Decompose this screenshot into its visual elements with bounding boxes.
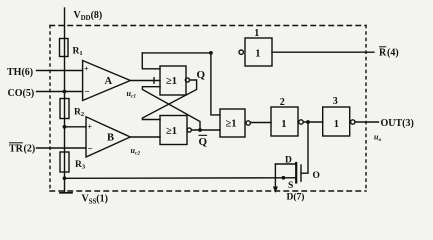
svg-text:TH(6): TH(6): [7, 67, 33, 78]
wire TR input: [37, 147, 87, 149]
svg-text:3: 3: [333, 96, 338, 107]
wire R4 reset pin: [272, 51, 374, 53]
svg-text:(4): (4): [387, 47, 399, 58]
node R2-R3 junction: [63, 125, 67, 129]
svg-text:−: −: [85, 87, 90, 97]
gate G1 latch top NOR: [160, 66, 186, 95]
svg-text:Q: Q: [197, 69, 206, 81]
wire Qbar output: [191, 129, 220, 131]
svg-text:+: +: [84, 65, 89, 74]
wire reset feedback to G3 input: [211, 53, 220, 115]
svg-text:1: 1: [334, 119, 339, 130]
wire VDD supply lead: [64, 8, 66, 39]
node source junction: [282, 176, 286, 180]
gate G3 NOR: [220, 109, 245, 137]
svg-text:D(7): D(7): [287, 192, 305, 203]
wire discharge pin D7: [274, 164, 276, 188]
transistor Q1 drain lead: [275, 163, 296, 165]
wire G3 to block 2: [250, 122, 271, 124]
resistor R3: [60, 152, 69, 172]
transistor Q1 source lead: [283, 177, 296, 179]
buffer block 1 with input bubble: [239, 50, 243, 54]
buffer block 3: [323, 107, 350, 136]
wire reset feedback top: [142, 52, 211, 54]
svg-text:CO(5): CO(5): [8, 88, 35, 99]
svg-text:+: +: [88, 123, 93, 132]
node CO junction: [63, 90, 67, 94]
wire OUT pin: [355, 121, 379, 123]
svg-text:−: −: [88, 144, 93, 154]
svg-text:≥1: ≥1: [166, 126, 177, 137]
wire gate of discharge transistor: [301, 122, 308, 173]
svg-text:R: R: [379, 47, 387, 58]
wire Q output cross-coupling to G2: [142, 80, 196, 120]
node VSS junction: [63, 176, 67, 180]
node Qbar junction: [198, 128, 202, 132]
wire CO input: [37, 91, 83, 93]
buffer block 2: [271, 107, 298, 136]
resistor R2: [60, 99, 69, 119]
wire block2 to block3: [303, 121, 323, 123]
arrow discharge pin: [273, 187, 278, 194]
gate G2 latch bottom NOR: [160, 116, 187, 145]
dashed IC boundary box: [50, 26, 366, 192]
wire ref to comparator B plus: [65, 126, 87, 128]
wire reset feedback to G1 input: [142, 53, 160, 69]
wire tick on A output: [153, 78, 155, 83]
svg-text:O: O: [313, 171, 320, 181]
svg-text:1: 1: [281, 119, 286, 130]
svg-text:A: A: [105, 76, 113, 87]
svg-text:(2): (2): [24, 143, 36, 154]
wire TH input: [37, 70, 83, 72]
svg-text:B: B: [107, 133, 114, 144]
node output stage junction: [306, 120, 310, 124]
svg-text:≥1: ≥1: [226, 118, 237, 129]
svg-text:≥1: ≥1: [166, 76, 177, 87]
svg-text:S: S: [288, 181, 293, 191]
wire comparator B output: [130, 136, 160, 138]
wire resistor chain: [64, 39, 66, 193]
op-amp comparator B: [86, 117, 130, 157]
resistor R1: [60, 39, 69, 57]
svg-text:1: 1: [254, 28, 259, 39]
transistor Q1 channel bar: [295, 163, 297, 183]
svg-text:OUT(3): OUT(3): [381, 118, 414, 129]
svg-text:Q: Q: [199, 136, 208, 148]
svg-text:2: 2: [280, 97, 285, 108]
wire Qbar cross-coupling to G1: [142, 87, 200, 130]
wire VSS rail to source: [65, 177, 284, 180]
transistor Q1 gate plate: [300, 165, 302, 181]
svg-text:D: D: [285, 156, 292, 166]
svg-text:1: 1: [255, 48, 260, 59]
node VSS terminal bar: [60, 192, 72, 194]
op-amp comparator A: [83, 61, 131, 101]
node reset junction: [209, 51, 213, 55]
wire comparator A output: [130, 80, 160, 82]
svg-text:TR: TR: [9, 143, 24, 154]
